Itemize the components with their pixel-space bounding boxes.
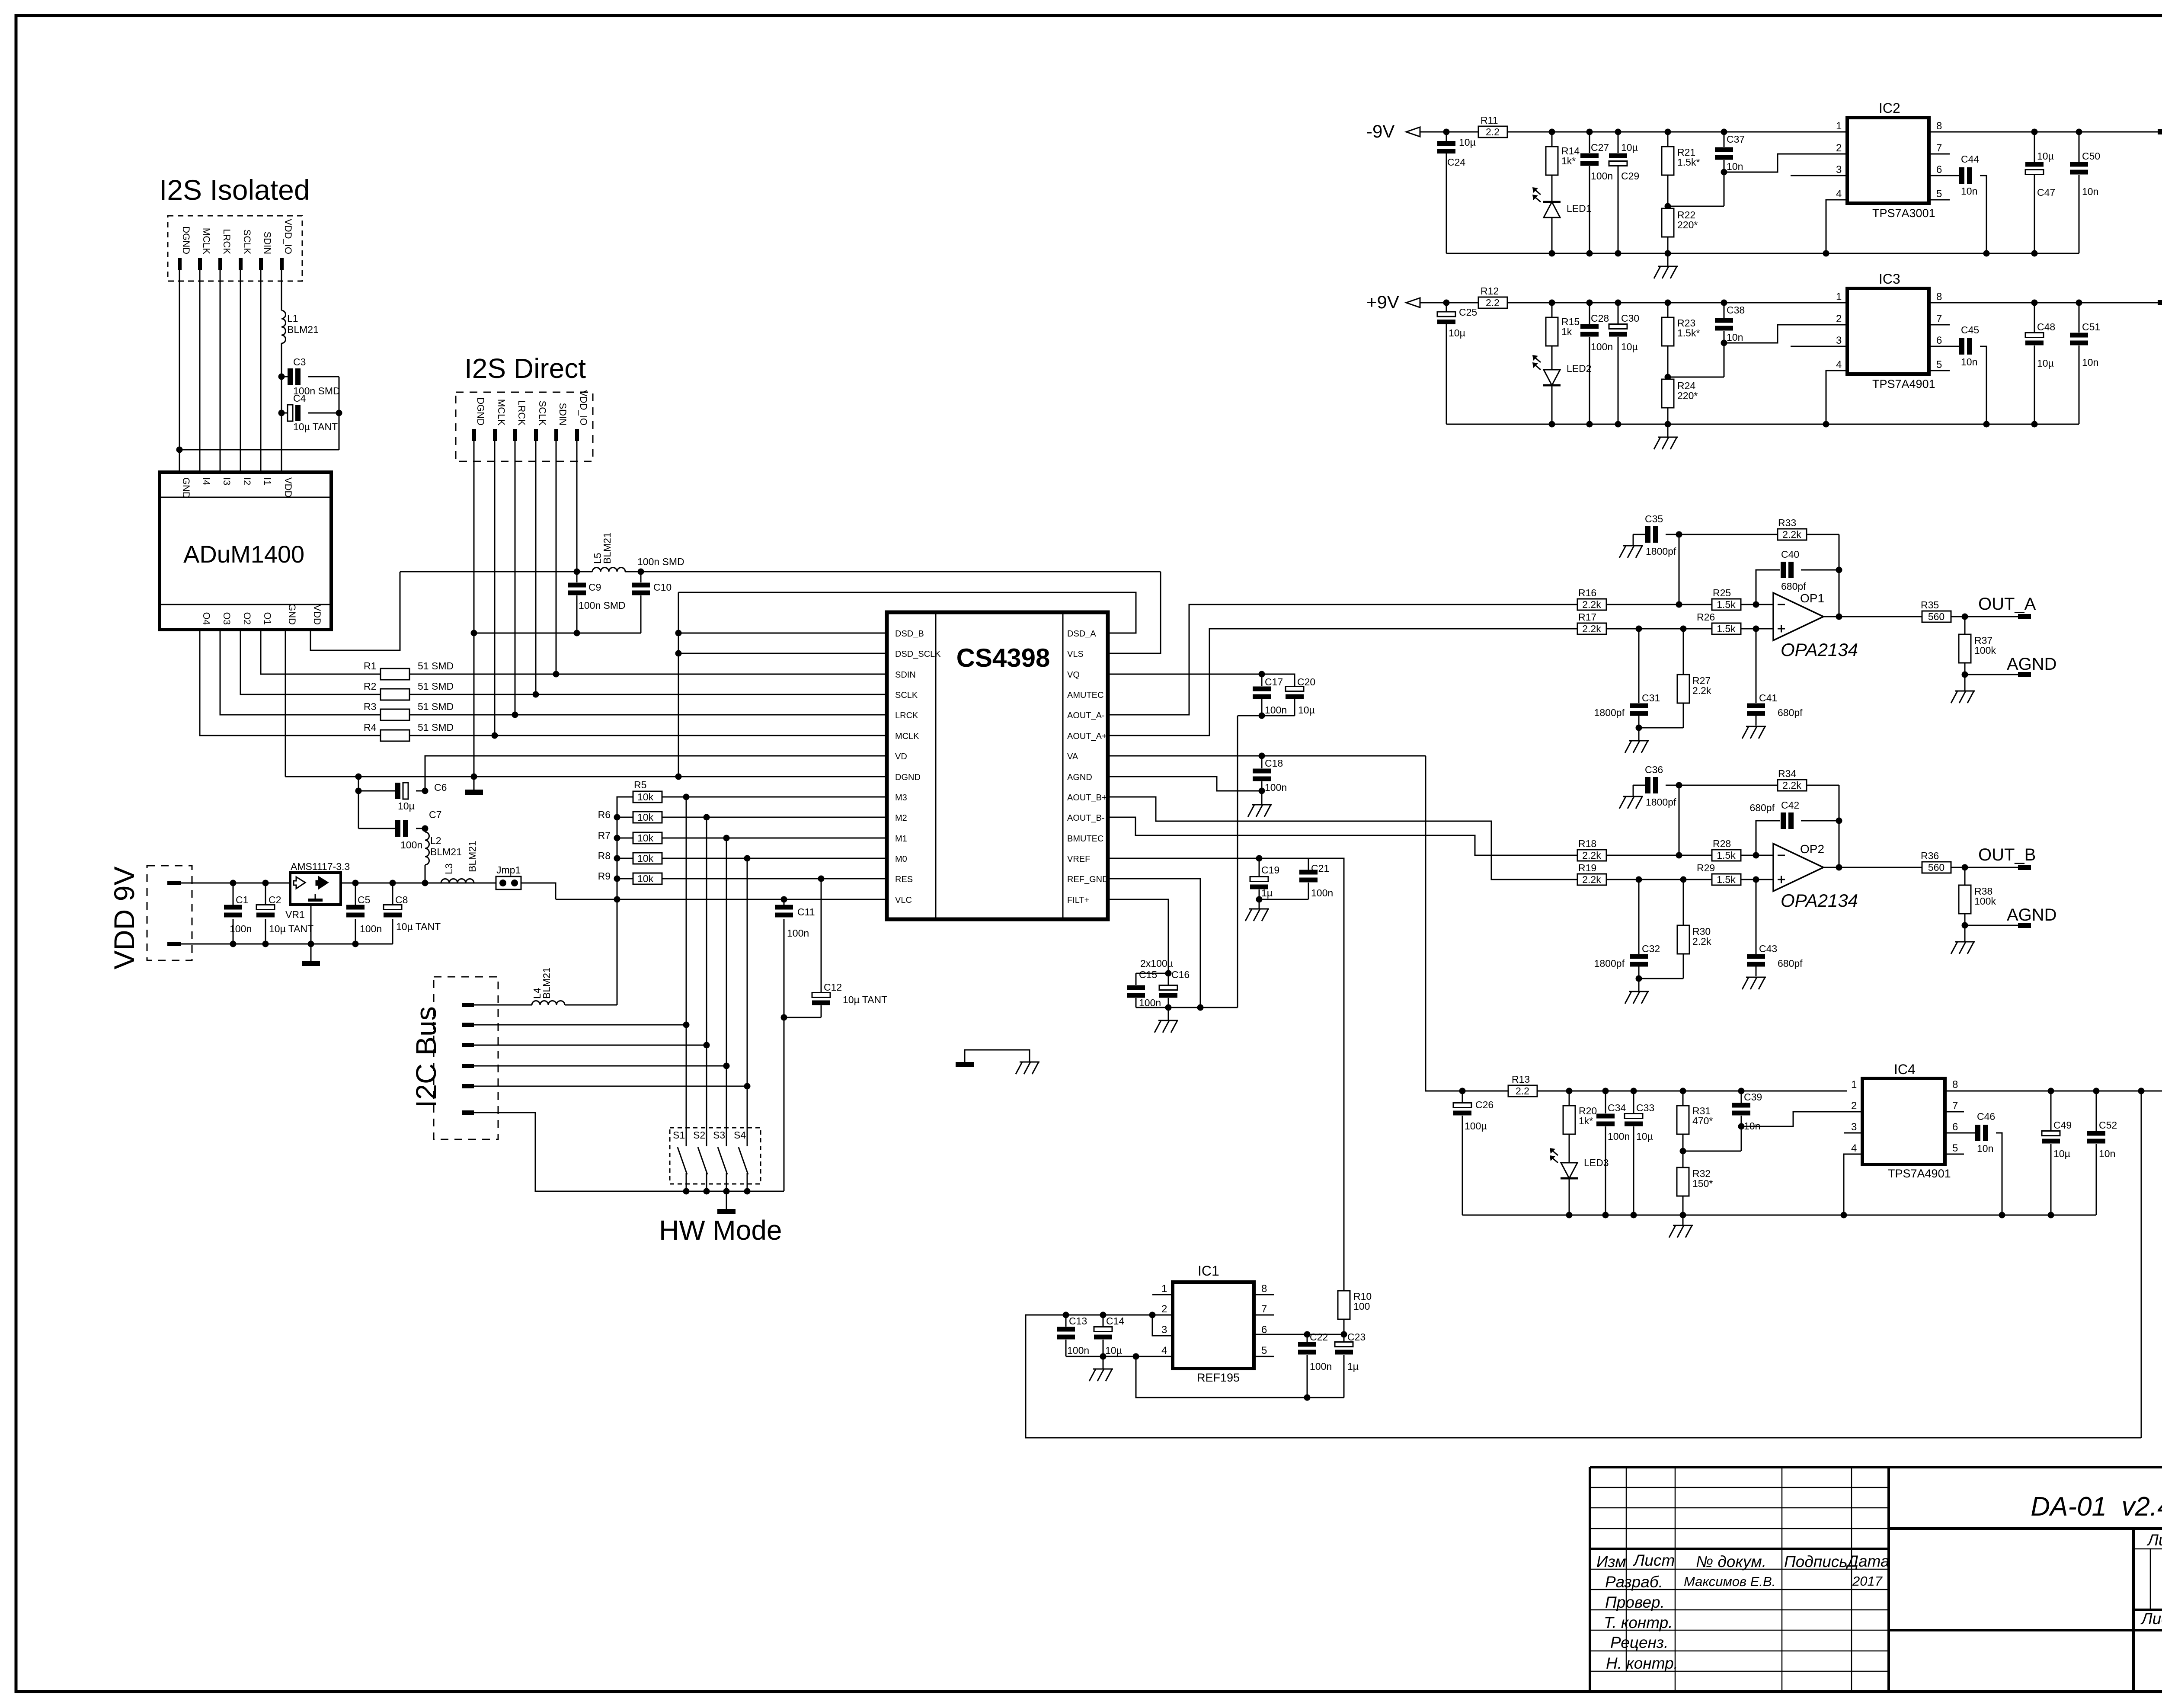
svg-text:100n: 100n [1608,1131,1630,1142]
wire AOUT_B+ to OP2 plus [1108,797,1577,880]
junction ground rail [1983,250,1990,257]
inductor L4 BLM21 [532,1001,565,1005]
capacitor C20 10µ [1262,674,1295,686]
resistor R5 10k [633,779,662,803]
svg-text:C33: C33 [1636,1102,1654,1113]
wire FILT+ to C15/C16 [1108,899,1168,973]
svg-text:C11: C11 [797,906,815,918]
junction DSD_B [675,630,682,637]
svg-text:5: 5 [1936,188,1942,200]
svg-text:10µ TANT: 10µ TANT [293,421,338,432]
ground rail bottom [1446,424,2079,425]
switch S4 [734,858,748,1191]
svg-text:8: 8 [1936,291,1942,303]
capacitor C16 100µ [1168,973,1169,985]
capacitor C48 10µ [2034,303,2035,333]
capacitor C43 680pf on plus at op-amp [1756,880,1757,954]
resistor R36 560 [1922,862,1951,873]
svg-text:100n SMD: 100n SMD [637,556,684,567]
ground slash AGND [1955,941,1975,943]
svg-text:2.2k: 2.2k [1582,599,1601,610]
svg-text:L2: L2 [430,835,441,846]
svg-text:100n: 100n [1139,997,1161,1008]
ground AGND below C18 [1252,804,1272,806]
wire I2S Direct MCLK down [494,441,496,736]
junction feedback at minus row [1676,601,1682,608]
junction SDIN / I2S Direct SDIN [553,671,560,678]
svg-text:OP2: OP2 [1800,842,1824,856]
wire R to op-amp minus [1741,855,1773,856]
wire AGND trunk down [1237,716,1238,1008]
connector pin SCLK (I2S Isolated) [239,230,253,270]
wire VDD_IO node to ADuM VDD [281,413,282,472]
svg-text:I2C Bus: I2C Bus [410,1006,442,1108]
svg-text:100n: 100n [1265,782,1287,793]
wire R4 to CS4398 [409,735,887,736]
junction ground rail [1983,421,1990,428]
junction pin2/pin3 jog [1149,1312,1156,1318]
junction ground rail IC4 [1631,1212,1637,1219]
svg-text:4: 4 [1161,1345,1167,1356]
svg-text:VLC: VLC [895,896,912,905]
ground slash at feedback cap [1623,796,1643,797]
resistor R31 470* [1682,1091,1684,1106]
wire VREF rail [1108,858,1344,1291]
wire ADuM O1 to R1 [261,630,381,674]
svg-text:R36: R36 [1921,850,1939,861]
pin7 stub IC4 [1945,1111,1964,1113]
wire C16 ground stub [1168,1008,1169,1020]
svg-text:LED1: LED1 [1567,203,1592,214]
IC IC3 TPS7A4901 [1836,271,1942,390]
IC IC1 REF195 [1161,1263,1267,1384]
ground stub HW mode [726,1191,727,1209]
regulator VR1 AMS1117-3.3 [285,861,350,920]
capacitor C1 100n [233,883,234,906]
svg-text:100n: 100n [1265,704,1287,716]
svg-text:10n: 10n [1727,161,1743,172]
junction output terminal [1962,864,1968,871]
junction C25 [1443,300,1450,306]
ground slash IC4 [1673,1225,1693,1226]
wire DSD_A tie to ground bus [678,592,1136,633]
svg-text:Н. контр.: Н. контр. [1606,1654,1678,1672]
svg-text:R8: R8 [598,850,611,861]
svg-text:C2: C2 [269,894,281,905]
svg-text:100: 100 [1353,1301,1370,1312]
junction C a [1586,129,1593,135]
wire I2C pin2 to S1 net [474,1024,686,1026]
capacitor C40 680pf [1756,570,1780,605]
svg-text:C35: C35 [1645,513,1663,525]
svg-text:S3: S3 [713,1129,725,1141]
pin4 wire to ground rail [1826,371,1847,424]
svg-text:AOUT_A+: AOUT_A+ [1067,732,1107,741]
svg-text:100n: 100n [400,839,422,851]
svg-text:R29: R29 [1697,862,1715,873]
capacitor C45 10n feed-forward [1929,346,1959,347]
svg-text:R13: R13 [1512,1074,1530,1085]
wire R2 to CS4398 [409,694,887,695]
junction DGND at C9/C10 return [471,630,477,637]
svg-text:R28: R28 [1713,838,1731,849]
svg-text:L1: L1 [287,313,298,324]
svg-text:LRCK: LRCK [895,711,918,720]
svg-text:3: 3 [1851,1121,1857,1133]
junction output rail IC4 [2138,1088,2145,1094]
svg-text:Лист: Лист [2140,1610,2162,1628]
ground stub [1667,253,1669,266]
connector pin MCLK (I2S Direct) [493,399,507,441]
ground bar DGND tie [956,1062,974,1067]
svg-text:2: 2 [1851,1100,1857,1112]
resistor R10 100 [1343,1319,1345,1334]
wire feedback node to minus input [1679,534,1680,605]
wire I2C pin5 to S4 net [474,1086,747,1087]
resistor R6 10k [598,809,662,823]
svg-text:2017: 2017 [1852,1574,1883,1589]
switch S2 [693,817,707,1191]
LED LED3 [1569,1134,1570,1163]
svg-text:VA: VA [1067,752,1078,761]
svg-text:10µ: 10µ [1449,327,1465,339]
capacitor C15 100n [1136,973,1168,974]
svg-text:C51: C51 [2082,321,2100,333]
wire rail to R11 [1446,131,1478,133]
capacitor C46 10n [1945,1132,1975,1134]
svg-text:4: 4 [1851,1142,1857,1154]
svg-text:C4: C4 [293,393,306,404]
svg-text:C1: C1 [236,894,248,905]
ground slash 680pf [1746,726,1766,727]
junction C2 gnd [262,941,269,947]
wire C19 ground stub [1259,899,1260,909]
svg-text:100n: 100n [1310,1361,1332,1372]
capacitor C7 100n [358,828,395,829]
junction +9V rail [1566,1088,1573,1094]
svg-text:C32: C32 [1642,943,1660,954]
svg-text:-9V: -9V [1366,121,1394,141]
wire AOUT_B- to OP2 minus [1108,817,1577,855]
svg-text:2.2k: 2.2k [1782,529,1801,540]
svg-text:I2S Isolated: I2S Isolated [159,174,310,206]
junction REF_GND trunk at AGND row [1197,1004,1204,1011]
svg-text:IC4: IC4 [1894,1062,1916,1077]
resistor R33 2.2k [1679,534,1778,535]
wire R9 to CS4398 [662,878,887,880]
connector pin 6 (I2C Bus) [462,1110,474,1115]
svg-text:10µ TANT: 10µ TANT [843,994,887,1005]
svg-text:7: 7 [1261,1303,1267,1315]
junction C lpf on plus row [1636,626,1642,632]
wire ADuM GND down to DGND rail [285,630,286,777]
junction output terminal [1962,614,1968,620]
svg-text:6: 6 [1936,335,1942,346]
terminal -18V [2158,129,2162,134]
switch S3 [713,838,727,1191]
junction LRCK / I2S Direct LRCK [512,712,518,718]
svg-text:100n: 100n [1067,1345,1089,1356]
junction C9 / VDD_IO [574,569,580,575]
svg-text:O1: O1 [262,612,273,625]
junction R led [1549,129,1555,135]
svg-text:2.2k: 2.2k [1582,850,1601,861]
svg-text:10n: 10n [2082,186,2098,197]
svg-text:1: 1 [1161,1283,1167,1295]
svg-text:C26: C26 [1475,1099,1494,1110]
ground AGND below C16 [1158,1020,1178,1021]
svg-text:I4: I4 [201,477,212,485]
IC IC2 TPS7A3001 [1836,100,1942,220]
svg-text:1.5k: 1.5k [1717,874,1736,885]
resistor R1 51 SMD [364,660,454,680]
resistor R30 2.2k to ground [1683,880,1684,925]
svg-text:AGND: AGND [2007,905,2057,924]
resistor R15 1k [1551,303,1553,317]
wire IC4 output rail [1945,1091,2162,1092]
capacitor C17 100n [1261,674,1263,686]
ground AGND below C19 [1249,908,1269,910]
svg-text:S1: S1 [673,1129,685,1141]
junction C1 gnd [230,941,237,947]
svg-text:C44: C44 [1961,154,1979,165]
ground slash lpf [1629,740,1649,742]
svg-text:10µ: 10µ [1298,704,1315,716]
svg-text:MCLK: MCLK [201,228,212,254]
connector pin MCLK (I2S Isolated) [198,228,212,270]
resistor R9 10k [598,870,662,884]
svg-text:R5: R5 [634,779,646,790]
svg-text:C52: C52 [2099,1119,2117,1131]
switch S1 [673,797,687,1191]
svg-text:SCLK: SCLK [537,401,548,426]
wire DGND from connector to ADuM1400 [179,270,180,472]
capacitor C5 100n [355,883,356,906]
svg-text:DSD_A: DSD_A [1067,629,1096,639]
svg-text:6: 6 [1952,1121,1958,1133]
svg-text:OPA2134: OPA2134 [1781,890,1858,911]
ground stub AGND [1964,925,1966,942]
wire R31/R32 junction [1682,1134,1684,1167]
junction C18 top [1259,753,1265,759]
junction ground rail [1665,421,1671,428]
svg-text:AGND: AGND [2007,655,2057,674]
junction DGND rail [471,774,477,780]
svg-text:680pf: 680pf [1778,707,1803,718]
svg-text:I3: I3 [221,477,232,485]
inductor L1 BLM21 [281,310,286,343]
svg-text:C25: C25 [1459,307,1477,318]
wire rail after series R [1507,302,1847,304]
svg-text:2: 2 [1836,142,1842,154]
terminal AGND [2018,672,2031,677]
IC IC4 TPS7A4901 [1851,1062,1958,1180]
wire SCLK to ADuM I2 [240,270,241,472]
junction ground rail IC4 [1999,1212,2005,1219]
ground stub [1667,424,1669,437]
svg-text:AOUT_B+: AOUT_B+ [1067,793,1107,803]
junction C2 input [262,880,269,886]
wire DGND to C3/C4 right plates [179,449,339,451]
svg-text:+9V: +9V [1366,292,1399,312]
svg-text:1800pf: 1800pf [1594,707,1625,718]
svg-text:IC2: IC2 [1879,100,1900,116]
svg-text:S4: S4 [734,1129,746,1141]
wire VA rail [1108,755,1426,757]
svg-text:8: 8 [1936,120,1942,132]
svg-text:C29: C29 [1621,170,1639,182]
svg-text:DGND: DGND [475,397,486,425]
junction M0 / S4 [744,855,751,862]
wire VDD9V ground rail [181,944,393,945]
svg-text:DGND: DGND [181,226,192,254]
ground slash below C14 [1093,1369,1113,1370]
svg-text:100k: 100k [1974,896,1996,907]
terminal OUT_A [2018,614,2031,619]
wire AOUT_A- to OP1 minus [1108,605,1577,715]
resistor R4 51 SMD [364,722,454,741]
junction output rail IC4 [2093,1088,2100,1094]
op-amp OP2 OPA2134 [1773,844,1823,891]
junction C nr [1721,300,1727,306]
wire R1 to CS4398 [409,674,887,675]
junction C50 [2076,129,2082,135]
junction +9V rail [1631,1088,1637,1094]
net arrow -9V [1406,131,1447,133]
junction C19 top [1256,855,1263,862]
junction ground rail [1823,421,1829,428]
svg-text:DSD_SCLK: DSD_SCLK [895,649,941,659]
resistor R21 1.5k* [1667,132,1669,147]
wire VLC row from Jmp1 jog [556,899,887,900]
svg-text:C36: C36 [1645,764,1663,775]
capacitor C13 100n [1065,1315,1067,1327]
pin5 stub IC4 [1945,1154,1964,1155]
ground rail bottom [1446,253,2079,254]
junction ground rail IC4 [2048,1212,2054,1219]
svg-text:1: 1 [1836,291,1842,303]
wire plus row [1606,879,1712,880]
pin4 wire to ground rail [1826,200,1847,253]
junction C40 tap [1753,852,1759,859]
wire AGND terminal [1965,674,2018,675]
junction C11/C12 bottom [781,1014,787,1021]
svg-text:C5: C5 [358,894,370,905]
wire AOUT_A+ to OP1 plus [1108,629,1577,736]
junction R div [1665,129,1671,135]
ground slash AGND [1955,691,1975,692]
svg-text:C38: C38 [1727,304,1745,316]
capacitor C18 100n [1261,756,1263,768]
capacitor C28 100n [1589,303,1590,324]
svg-text:1800pf: 1800pf [1594,958,1625,969]
resistor R3 51 SMD [364,701,454,720]
svg-text:Реценз.: Реценз. [1610,1634,1668,1651]
svg-text:1k: 1k [1561,326,1572,337]
svg-text:C31: C31 [1642,692,1660,704]
svg-text:R2: R2 [364,681,376,692]
wire minus row [1606,604,1712,605]
svg-text:C12: C12 [824,982,842,993]
resistor R19 2.2k input plus [1577,874,1606,885]
wire ADuM O2 to R2 [240,630,381,694]
svg-text:M0: M0 [895,854,907,864]
wire lpf bottom [1639,727,1683,729]
wire op-amp output [1823,867,1922,868]
ground slash 680pf [1746,977,1766,978]
connector pin VDD9V + [167,881,181,885]
svg-text:M2: M2 [895,813,907,823]
svg-text:100µ: 100µ [1465,1120,1487,1132]
wire VR1 ground stub [310,905,312,961]
svg-text:R4: R4 [364,722,377,733]
junction L2 bottom [422,880,429,886]
svg-text:470*: 470* [1692,1115,1713,1126]
wire divider junction [1667,346,1669,379]
svg-text:1.5k: 1.5k [1717,599,1736,610]
pin4 wire IC4 to ground rail [1844,1154,1862,1215]
junction C a [1586,300,1593,306]
junction +9V rail [1738,1088,1745,1094]
svg-text:C6: C6 [434,782,447,793]
svg-text:R7: R7 [598,830,611,841]
wire VQ rail [1108,674,1262,675]
junction lpf bottom [1636,976,1642,982]
junction C17 bottom [1259,713,1265,719]
svg-text:R33: R33 [1778,517,1796,528]
capacitor C38 10n [1724,303,1725,318]
svg-text:C9: C9 [588,582,601,593]
capacitor C39 10n [1741,1091,1742,1103]
svg-text:10µ: 10µ [1621,341,1638,352]
junction C24 [1443,129,1450,135]
junction R gnd on plus row [1680,626,1687,632]
svg-text:10k: 10k [637,853,654,864]
svg-text:C27: C27 [1591,142,1609,153]
svg-text:1.5k: 1.5k [1717,623,1736,634]
capacitor C10 100n SMD [640,572,642,582]
svg-text:R6: R6 [598,809,611,820]
svg-text:R26: R26 [1697,611,1715,623]
resistor R2 51 SMD [364,681,454,700]
svg-text:10µ: 10µ [2037,358,2054,369]
svg-text:2: 2 [1836,313,1842,325]
svg-text:7: 7 [1952,1100,1958,1112]
wire I2C pin1 to L4 [474,1004,532,1006]
svg-text:R18: R18 [1578,838,1596,849]
svg-text:680pf: 680pf [1781,581,1806,592]
svg-text:2.2k: 2.2k [1782,780,1801,791]
svg-text:8: 8 [1261,1283,1267,1295]
wire output rail [1929,302,2159,304]
svg-text:VQ: VQ [1067,670,1080,680]
wire ADuM VDD to VDD_IO rail riser [310,572,400,650]
pin3 stub [1791,346,1847,347]
svg-text:C30: C30 [1621,313,1639,324]
svg-text:IC1: IC1 [1198,1263,1219,1279]
node VDD_ISO junction at C3 [278,374,285,380]
junction C19 bottom [1256,896,1263,903]
capacitor C49 10µ [2050,1091,2052,1131]
wire L3 to Jmp1 [474,883,496,884]
junction SCLK / I2S Direct SCLK [533,691,539,698]
svg-text:680pf: 680pf [1749,802,1775,813]
wire C9/C10 bottoms to DGND riser [474,633,641,634]
pin5 stub IC1 [1254,1356,1274,1357]
capacitor C3 100n SMD [281,376,288,377]
wire VD supply from L2 node [425,756,887,791]
capacitor C27 100n [1589,132,1590,153]
